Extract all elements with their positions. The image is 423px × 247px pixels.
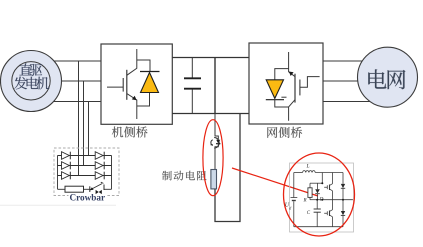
crowbar rectifier diode right 1	[95, 152, 103, 160]
label 机侧桥	[112, 126, 123, 137]
detail snubber branch leg	[321, 173, 323, 184]
diode machine-side cathode bar	[140, 71, 160, 73]
detail bottom rail	[294, 226, 343, 228]
IGBT machine-side gate plate	[122, 78, 124, 92]
capacitor DC-link lead bottom	[191, 90, 193, 114]
crowbar rectifier diode left 1	[62, 152, 70, 160]
IGBT machine-side collector	[127, 49, 137, 75]
crowbar dashed enclosure	[54, 148, 119, 196]
svg-text:R: R	[303, 199, 307, 204]
wire brake branch top	[215, 114, 218, 140]
crowbar bowtie contact	[96, 190, 99, 194]
detail IGBT upper	[332, 173, 334, 182]
wire brake branch bottom	[215, 114, 240, 222]
IGBT machine-side emitter with arrow	[127, 94, 137, 120]
generator G inner circle	[12, 62, 50, 100]
IGBT machine-side gate lead	[107, 86, 123, 88]
crowbar right rail	[111, 156, 113, 190]
diode grid-side cathode wire	[275, 100, 289, 107]
diode machine-side orange triangle	[141, 73, 159, 93]
detail diode Db	[317, 183, 319, 189]
detail junction dots	[321, 182, 323, 184]
converter grid-side bridge box	[249, 43, 323, 124]
wire phase B bridge to grid	[323, 80, 365, 82]
IGBT grid-side body bar	[294, 74, 296, 103]
IGBT machine-side body bar	[126, 70, 128, 100]
crowbar phase rail 2	[58, 165, 112, 167]
detail circuit gray frame	[290, 163, 354, 232]
converter machine-side bridge box	[101, 44, 172, 124]
detail diode lower	[342, 200, 344, 211]
svg-text:Crowbar: Crowbar	[70, 192, 106, 202]
crowbar rectifier diode left 3	[62, 172, 70, 180]
brake chopper IGBT	[214, 138, 219, 149]
detail IGBT lower	[332, 200, 334, 208]
wire phase A bridge to grid	[323, 60, 370, 62]
faint page rule	[0, 204, 116, 206]
brake resistor	[211, 170, 217, 189]
diode grid-side anode wire	[275, 69, 289, 80]
detail top rail with inductor	[294, 172, 303, 174]
label 网侧桥	[267, 127, 277, 138]
crowbar left rail	[57, 156, 59, 190]
wire phase A generator to machine bridge	[40, 60, 101, 62]
crowbar bottom wire left	[58, 188, 66, 190]
label 制动电阻	[162, 171, 172, 181]
detail capacitor Cb	[316, 200, 318, 209]
wire phase B generator to machine bridge	[45, 80, 101, 82]
IGBT grid-side emitter dash	[281, 96, 286, 98]
detail diode upper	[342, 173, 344, 184]
red highlight ellipse small	[203, 120, 223, 196]
wire DC bus bottom	[172, 113, 249, 115]
diode grid-side cathode bar	[266, 99, 284, 101]
red callout line	[232, 168, 318, 196]
wire crowbar tap phase B	[83, 81, 85, 166]
crowbar rectifier diode right 2	[95, 162, 103, 170]
wire DC bus top	[172, 57, 249, 59]
crowbar phase rail 1	[58, 155, 112, 157]
crowbar bottom wire middle	[84, 188, 91, 190]
detail resistor Rb	[309, 183, 311, 188]
red highlight ellipse large	[284, 153, 355, 236]
detail source Ud battery	[293, 173, 295, 198]
wire IGBT to diode top branch	[137, 60, 150, 72]
crowbar rectifier diode left 2	[62, 162, 70, 170]
wire phase C generator to machine bridge	[40, 101, 101, 103]
capacitor DC-link lead top	[191, 58, 193, 78]
wire crowbar tap phase C	[88, 102, 90, 156]
IGBT grid-side gate plate	[299, 80, 301, 96]
generator G outer circle	[1, 51, 62, 112]
crowbar phase rail 3	[58, 175, 112, 177]
capacitor DC-link plates	[184, 77, 201, 79]
wire phase C bridge to grid	[323, 101, 375, 103]
wire crowbar tap phase A	[78, 61, 80, 176]
wire DC-link vertical	[214, 58, 216, 114]
power grid circle	[358, 47, 418, 107]
IGBT grid-side emitter	[289, 100, 295, 121]
crowbar rectifier diode right 3	[95, 172, 103, 180]
diode grid-side orange triangle	[266, 80, 283, 99]
generator label 直驱发电机	[19, 63, 31, 75]
svg-text:L: L	[306, 164, 310, 170]
diode machine-side anode joining wire	[137, 93, 150, 107]
wire brake chopper to resistor	[215, 144, 218, 170]
crowbar thyristor switch	[89, 186, 91, 192]
IGBT grid-side gate lead	[300, 77, 320, 88]
grid label 电网	[368, 69, 386, 88]
detail mid rail	[322, 199, 353, 201]
IGBT grid-side collector with arrow	[289, 52, 295, 77]
crowbar bottom wire right	[104, 188, 112, 190]
crowbar resistor	[65, 186, 84, 192]
